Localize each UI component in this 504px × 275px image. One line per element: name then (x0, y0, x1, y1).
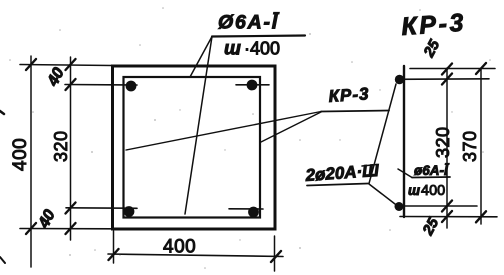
dimension line 400 vertical (outer chain) (30, 56, 32, 267)
cage extension line bottom bar level (399, 205, 477, 207)
cage extension line bottom outer (400, 216, 497, 218)
svg-text:КР-3: КР-3 (328, 84, 370, 106)
svg-text:25: 25 (420, 37, 444, 61)
extension from column BL corner down (113, 231, 115, 263)
tick at 40-chain top (66, 59, 76, 70)
tick at 40-chain bottom (66, 223, 76, 234)
svg-text:2ø20А·Ш: 2ø20А·Ш (304, 161, 380, 185)
svg-text:Ø6А-Ī: Ø6А-Ī (218, 12, 280, 34)
tick 320 top (442, 64, 452, 75)
tick 320 bottom (442, 211, 452, 222)
extension line through top-right rebar (236, 84, 269, 86)
cage spec hook leader (398, 169, 412, 178)
svg-text:400: 400 (421, 183, 445, 199)
overbar on III (362, 165, 377, 167)
rebar dot TR (247, 80, 258, 91)
svg-text:320: 320 (51, 130, 71, 162)
fraction bar of stirrup spec (212, 36, 305, 37)
svg-text:ш: ш (224, 39, 241, 60)
scan speck left edge (0, 111, 4, 114)
extension line bottom edge (left) (20, 228, 112, 230)
extension line top edge (left) (20, 65, 112, 66)
leader A to stirrup top (190, 37, 212, 78)
tick 370 top (476, 63, 486, 74)
dimension line 400 bottom (108, 254, 283, 257)
leader B to stirrup bottom (185, 37, 212, 215)
svg-text:·400: ·400 (244, 39, 280, 59)
extension line through bottom-right rebar (229, 208, 263, 210)
svg-text:320: 320 (433, 126, 453, 158)
svg-text:ø6А-Ī: ø6А-Ī (414, 163, 450, 178)
scan speck bottom-left (0, 257, 5, 263)
tick 320 bar-top (442, 74, 452, 85)
svg-text:40: 40 (44, 65, 68, 90)
tick 320 bar-bottom (442, 201, 452, 212)
rebar dot BR (248, 207, 259, 218)
svg-text:400: 400 (163, 237, 196, 258)
tick bottom-dim left (109, 249, 119, 260)
KR-3 leader 1 to stirrup left (126, 112, 321, 151)
KR-3 leader 2 to stirrup right (260, 112, 321, 143)
cage dimension line 370 (480, 68, 482, 224)
KR-3 cage: top main bar (395, 75, 404, 84)
rebar dot TL (126, 81, 137, 92)
leader to top bar (369, 84, 396, 184)
cage extension line top outer (410, 68, 495, 70)
svg-text:25: 25 (419, 215, 443, 239)
leader to bottom bar (369, 184, 395, 204)
stirrup (inner square) (124, 77, 261, 218)
rebar dot BL (124, 206, 135, 217)
cage extension line top bar level (396, 78, 489, 81)
svg-text:400: 400 (10, 138, 31, 171)
tick bottom-dim right (271, 251, 281, 262)
column outer outline (400x400 section) (113, 66, 276, 229)
svg-text:ш: ш (408, 183, 420, 198)
KR-3 cage: bottom main bar (395, 202, 404, 211)
underline of mid KR-3 (321, 111, 389, 112)
KR-3 cage: cross rod (side view) (403, 66, 405, 217)
dimension line 40/320/40 chain (70, 57, 72, 240)
tick 370 bottom (476, 211, 486, 222)
tick at 400-chain top (26, 59, 36, 70)
tick at 400-chain bottom (26, 223, 36, 234)
underline of 2O20 label (307, 184, 368, 186)
cage spec fraction bar (412, 176, 450, 179)
extension line bottom rebar level (66, 207, 137, 210)
svg-text:370: 370 (460, 130, 480, 162)
tick at 40-chain rebar top (66, 79, 76, 90)
extension line top rebar level (65, 84, 137, 87)
cage dimension line 320 (446, 68, 448, 228)
svg-text:КР-3: КР-3 (400, 9, 466, 41)
tick at 40-chain rebar bottom (66, 203, 76, 214)
extension from column BR corner down (274, 236, 276, 271)
